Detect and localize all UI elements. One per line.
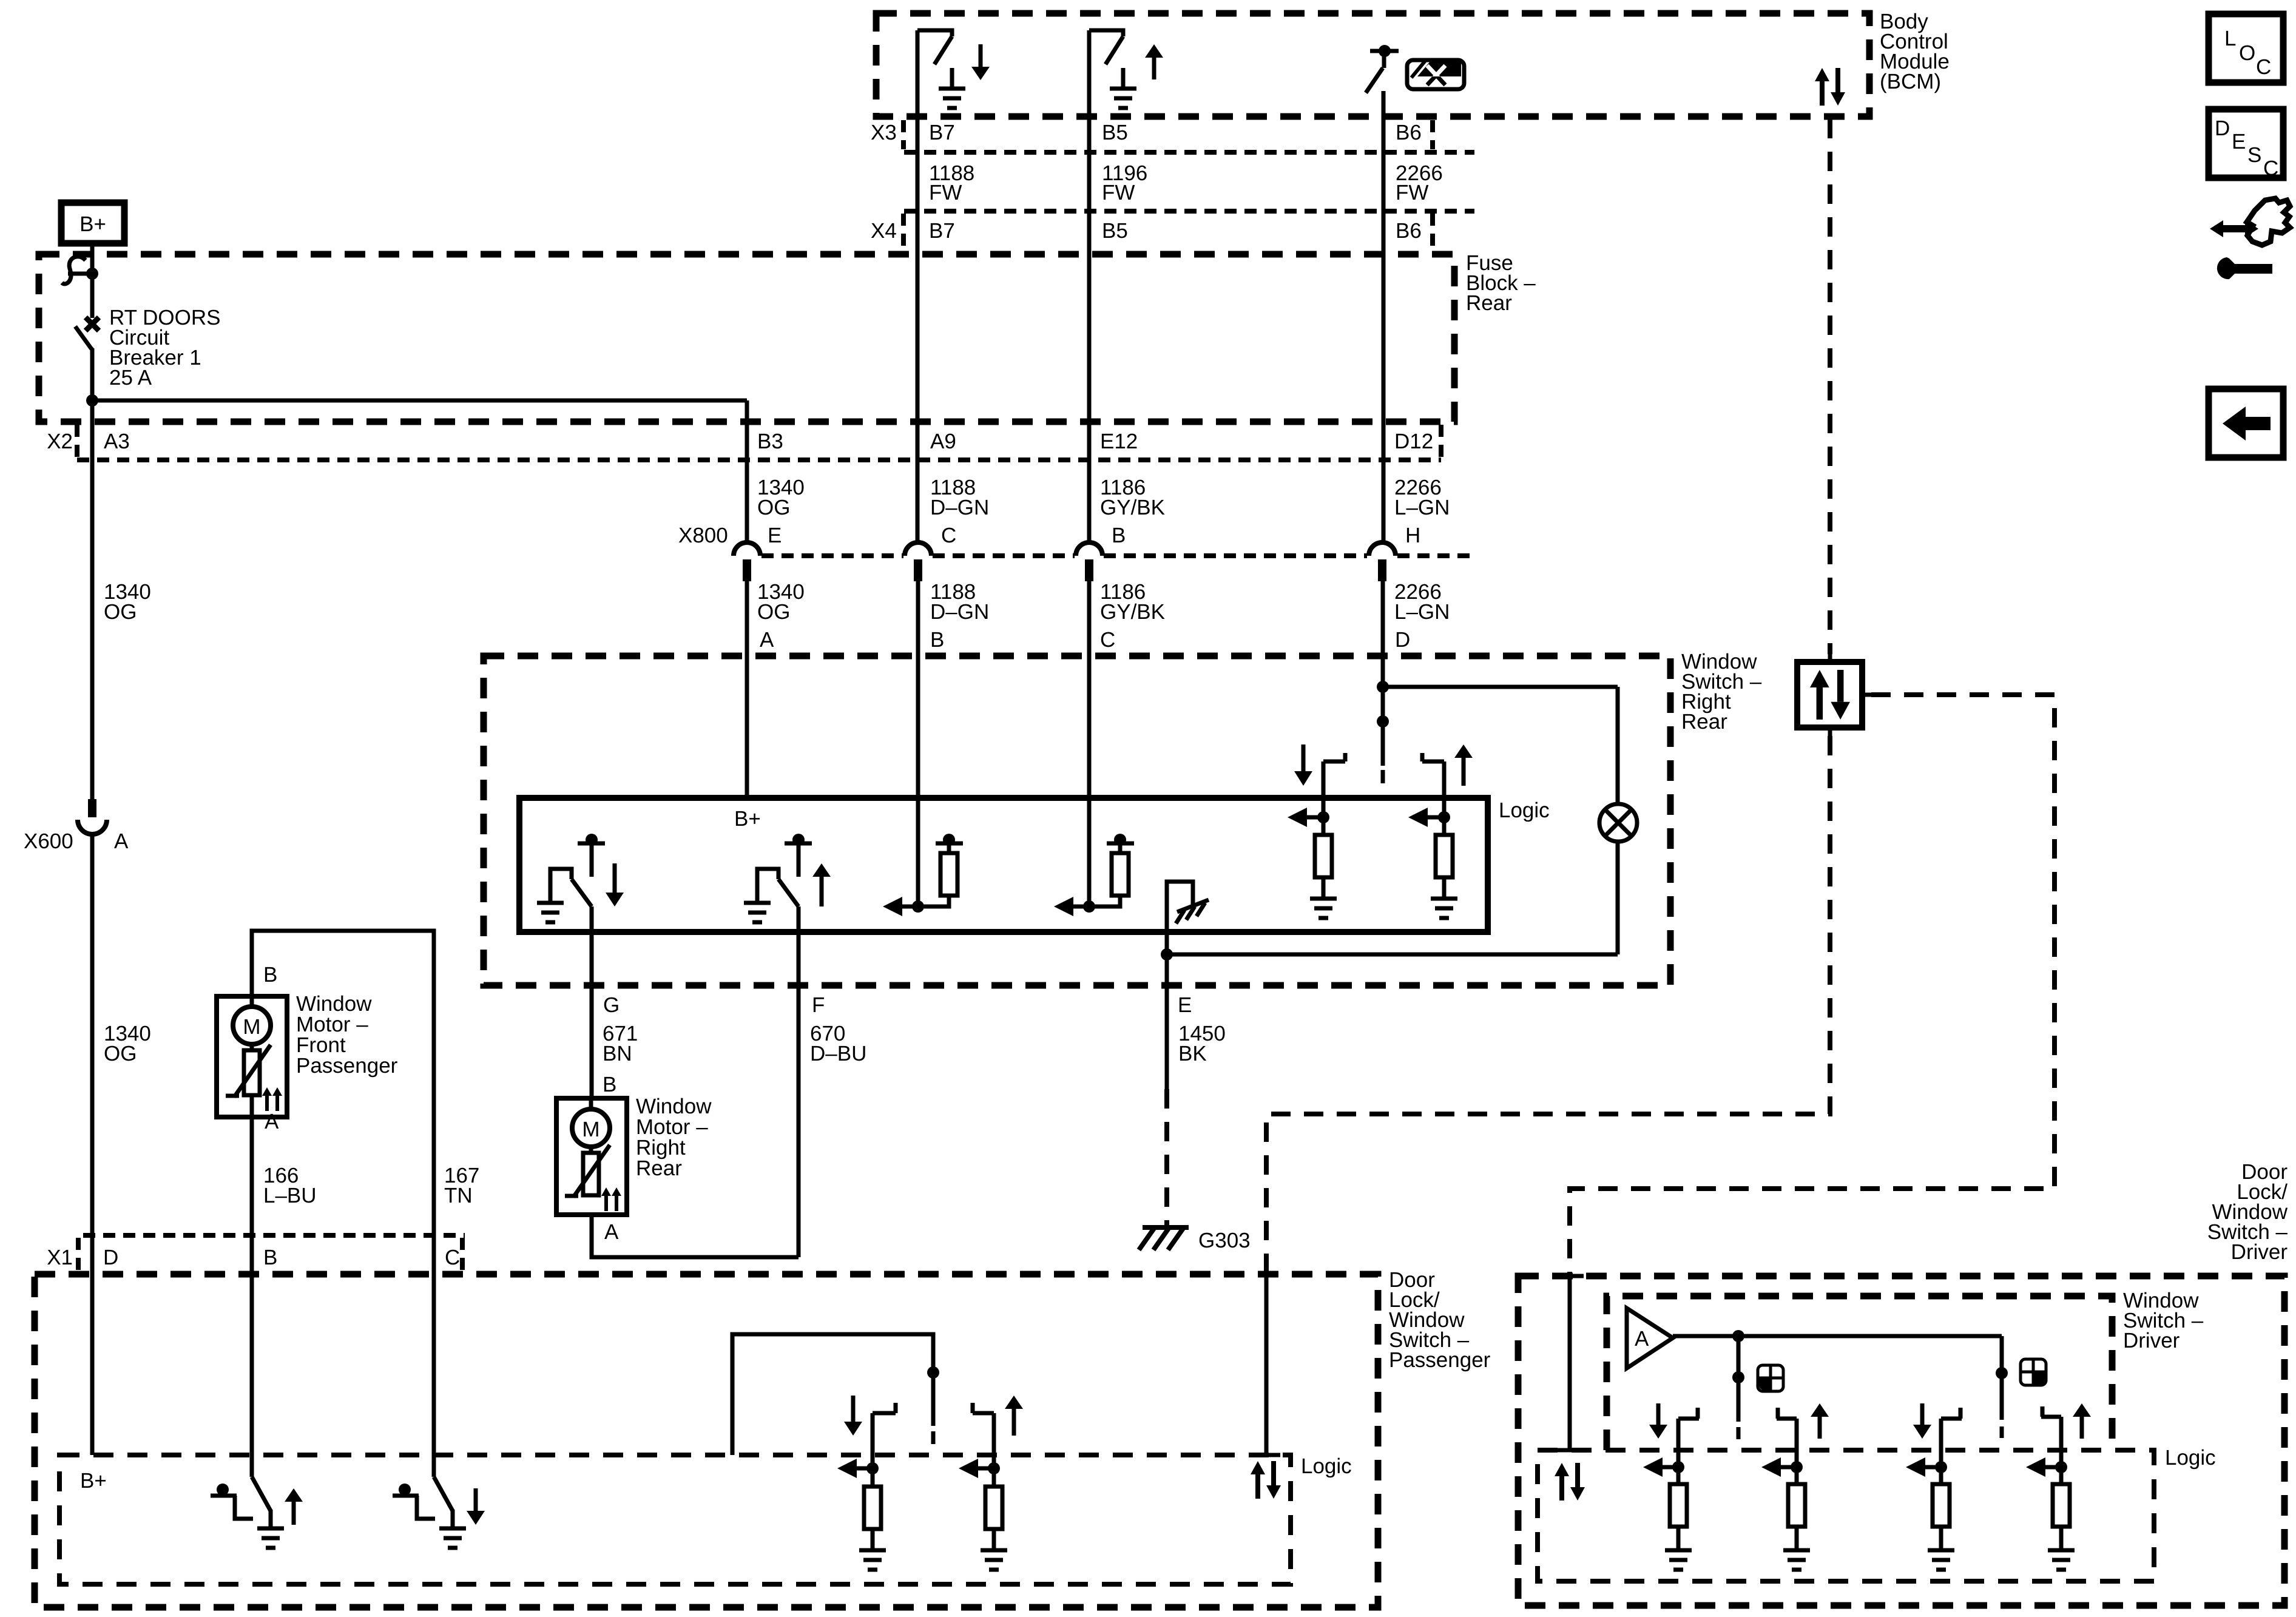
svg-text:B3: B3 (757, 430, 783, 453)
wire D junction and lamp feed (1377, 681, 1389, 693)
window lock icon 1 (1758, 1365, 1783, 1391)
svg-text:X4: X4 (871, 219, 897, 243)
BCM window-up switch (1089, 30, 1123, 87)
svg-text:E: E (768, 524, 782, 547)
DESC box (2209, 109, 2283, 180)
ground (passenger down switch) (439, 1528, 466, 1548)
svg-text:X2: X2 (47, 430, 73, 453)
svg-text:A3: A3 (104, 430, 130, 453)
svg-text:B+: B+ (79, 212, 106, 236)
X3 left tick (901, 120, 906, 149)
svg-text:X1: X1 (47, 1246, 73, 1269)
wire E down (1165, 954, 1169, 1089)
svg-text:A: A (604, 1220, 619, 1244)
svg-text:O: O (2239, 41, 2255, 65)
X800 connector B (1076, 542, 1102, 581)
down arrow (BCM) (971, 44, 990, 80)
svg-text:OG: OG (757, 600, 790, 624)
down switch in logic (550, 834, 605, 906)
LOC box (2209, 14, 2283, 83)
svg-text:E: E (2232, 130, 2246, 154)
svg-text:Rear: Rear (1681, 710, 1727, 734)
dashed WS-RR icon to driver (1570, 695, 2055, 1276)
lamp (circle with X) (1599, 804, 1637, 842)
svg-text:TN: TN (444, 1184, 473, 1207)
wire D lower junction (1377, 715, 1389, 727)
svg-text:OG: OG (104, 1042, 137, 1065)
svg-text:B5: B5 (1102, 121, 1128, 144)
dashed wire to G303 (1164, 1089, 1169, 1227)
up arrow (logic) (812, 863, 831, 906)
svg-text:Logic: Logic (1499, 798, 1550, 822)
svg-text:B6: B6 (1396, 219, 1422, 243)
svg-text:M: M (243, 1015, 260, 1039)
ground (passenger logic right) (981, 1550, 1007, 1570)
fuse block dashed box (39, 254, 1454, 422)
svg-text:L: L (2224, 27, 2236, 50)
wires X1 into passenger box (90, 1235, 95, 1455)
A output line (1673, 1334, 2002, 1338)
svg-text:B6: B6 (1396, 121, 1422, 144)
window lock icon 2 (2021, 1359, 2046, 1385)
svg-text:A: A (760, 628, 774, 652)
svg-text:C: C (445, 1246, 460, 1269)
X2 left tick (75, 425, 79, 457)
passenger logic dashed box (59, 1455, 1291, 1584)
svg-text:A9: A9 (930, 430, 956, 453)
driver logic switch 4 (up) (2026, 1406, 2070, 1549)
Window Motor - Right Rear box (556, 1098, 627, 1215)
passenger down switch (wire C) (393, 1477, 453, 1527)
svg-text:L–GN: L–GN (1394, 600, 1450, 624)
WS-RR dashed box (484, 656, 1670, 985)
up switch in logic (757, 834, 812, 906)
X800 fine line segments (761, 553, 903, 558)
svg-text:FW: FW (929, 181, 962, 204)
wire 1186 GY/BK (1087, 579, 1092, 906)
wire B+ to breaker (90, 243, 95, 318)
svg-text:Passenger: Passenger (296, 1054, 398, 1078)
wire 2266 L-GN (1381, 579, 1385, 766)
thermistor (RR) (565, 1145, 610, 1197)
wire B+ feed down left (90, 400, 95, 800)
svg-text:D12: D12 (1394, 430, 1433, 453)
svg-text:L–BU: L–BU (263, 1184, 317, 1207)
svg-text:B+: B+ (80, 1469, 107, 1493)
lamp return wire (1616, 842, 1620, 954)
thermistor (FP) (226, 1044, 271, 1097)
passenger up switch (wire B) (211, 1477, 271, 1527)
wire 1188 D-GN (916, 579, 920, 906)
svg-text:G: G (603, 993, 620, 1017)
svg-text:BN: BN (603, 1042, 632, 1065)
motor RR top wire stub (589, 1098, 593, 1111)
breaker contact X (86, 317, 99, 331)
passenger dashed box (35, 1274, 1378, 1607)
svg-text:OG: OG (757, 496, 790, 519)
svg-text:Logic: Logic (1301, 1454, 1352, 1478)
svg-text:Driver: Driver (2123, 1329, 2180, 1352)
Window Switch - Driver inner dashed box (1607, 1296, 2112, 1450)
wire motor RR A to F wire (592, 1215, 799, 1257)
passenger logic left switch (837, 1403, 896, 1549)
svg-text:E12: E12 (1100, 430, 1138, 453)
resistor 2 on 1186 wire (1054, 834, 1134, 916)
svg-text:A: A (1635, 1327, 1649, 1351)
svg-text:X3: X3 (871, 121, 897, 144)
X2 fine line (77, 457, 1441, 462)
wire G exits logic (590, 906, 594, 1098)
dashed WS-RR icon to passenger (1266, 736, 1830, 1274)
svg-text:S: S (2247, 143, 2261, 167)
double up arrows (RR) (601, 1187, 621, 1211)
A amplifier triangle (1627, 1308, 1673, 1368)
svg-text:B7: B7 (929, 121, 955, 144)
hand/arrow tool icon (2210, 198, 2290, 279)
wire below X600 (90, 834, 95, 1235)
ground (lock right) (1431, 899, 1457, 918)
X1 left tick (76, 1238, 81, 1271)
motor FP top wire stub (250, 996, 254, 1008)
svg-text:B: B (930, 628, 944, 652)
dashed BCM to WS-RR icon (1828, 119, 1832, 654)
up/down arrows icon (driver) (1555, 1463, 1585, 1501)
up arrow (driver logic 4) (2073, 1403, 2091, 1439)
X600 connector (78, 799, 107, 834)
svg-text:Rear: Rear (1466, 291, 1512, 315)
logic solid box (519, 798, 1488, 932)
chassis ground node E (1167, 882, 1193, 954)
down arrow (lock left) (1294, 744, 1312, 786)
breaker junction (68, 272, 92, 276)
passenger up/down icon feed (1264, 1274, 1269, 1455)
wire col1 down from bus (745, 400, 749, 543)
X800 connector E (734, 542, 760, 581)
svg-text:B+: B+ (734, 807, 761, 831)
svg-text:H: H (1405, 524, 1420, 547)
X1 fine line (83, 1233, 465, 1238)
driver dashed box (1518, 1276, 2284, 1605)
X800 connector C (905, 542, 931, 581)
X4 right tick (1430, 214, 1435, 249)
svg-text:C: C (1100, 628, 1115, 652)
motor FP supply line (252, 931, 434, 1235)
down arrow (passenger logic left) (844, 1396, 862, 1436)
up arrow (passenger logic right) (1005, 1396, 1023, 1436)
driver logic switch 3 (down) (1906, 1408, 1962, 1549)
svg-text:Logic: Logic (2165, 1446, 2216, 1470)
Window Motor - Front Passenger box (217, 996, 287, 1117)
svg-text:B7: B7 (929, 219, 955, 243)
svg-text:GY/BK: GY/BK (1100, 496, 1165, 519)
svg-text:C: C (2263, 157, 2278, 180)
svg-text:A: A (114, 829, 129, 853)
up/down arrows icon (passenger) (1251, 1461, 1281, 1499)
svg-text:E: E (1178, 993, 1192, 1017)
wire 1340 OG col1 (745, 579, 749, 800)
breaker blade (75, 326, 92, 349)
svg-text:(BCM): (BCM) (1880, 70, 1941, 93)
svg-text:M: M (582, 1118, 599, 1141)
svg-text:OG: OG (104, 600, 137, 624)
svg-text:FW: FW (1396, 181, 1428, 204)
ground (logic up switch) (744, 903, 771, 922)
driver logic switch 1 (down) (1643, 1408, 1699, 1549)
wire motor FP to X1 (250, 1095, 254, 1235)
ground (passenger up switch) (257, 1528, 284, 1548)
driver logic dashed box (1538, 1450, 2154, 1581)
lock wiper dash (1381, 770, 1385, 783)
svg-text:FW: FW (1102, 181, 1135, 204)
svg-text:GY/BK: GY/BK (1100, 600, 1165, 624)
svg-text:D–BU: D–BU (810, 1042, 866, 1065)
lock contact right (1408, 753, 1453, 897)
svg-text:A: A (265, 1110, 279, 1133)
svg-text:G303: G303 (1198, 1229, 1251, 1252)
svg-text:L–GN: L–GN (1394, 496, 1450, 519)
X2 right tick (1439, 425, 1443, 457)
passenger logic right switch (959, 1403, 1002, 1549)
svg-text:D–GN: D–GN (930, 600, 989, 624)
driver logic switch 2 (up) (1761, 1408, 1805, 1549)
svg-text:F: F (812, 993, 825, 1017)
svg-text:D: D (1395, 628, 1410, 652)
svg-text:X600: X600 (24, 829, 73, 853)
svg-text:X800: X800 (678, 524, 728, 547)
svg-text:D: D (103, 1246, 118, 1269)
X1 right tick (460, 1238, 465, 1271)
double up arrows (FP) (262, 1087, 282, 1111)
svg-text:C: C (941, 524, 956, 547)
svg-text:Rear: Rear (636, 1156, 682, 1180)
lock wire 2 (driver) (1996, 1336, 2008, 1438)
svg-text:D: D (2215, 116, 2230, 140)
lock wire 1 (driver) (1732, 1330, 1744, 1439)
down arrow (logic) (606, 863, 624, 906)
motor M circle (FP) (233, 1007, 271, 1044)
BCM up/down arrows icon (1815, 68, 1845, 106)
svg-text:B: B (263, 1246, 277, 1269)
down arrow (driver logic 1) (1649, 1403, 1667, 1439)
driver up/down icon feed (1568, 1276, 1572, 1450)
ground (passenger logic left) (859, 1550, 886, 1570)
G303 ground (1139, 1227, 1189, 1250)
B+ supply box (61, 203, 124, 243)
up arrow (BCM) (1145, 44, 1163, 79)
BCM window lock switch (1366, 45, 1399, 93)
breaker output junction (86, 394, 98, 407)
svg-text:BK: BK (1178, 1042, 1207, 1065)
up arrow (passenger) (285, 1488, 303, 1525)
wire breaker to col 1 (92, 399, 747, 403)
ground (BCM up switch) (1110, 89, 1136, 108)
up arrow (driver logic 2) (1811, 1403, 1829, 1439)
svg-text:B: B (603, 1073, 616, 1096)
BCM window-down switch (917, 30, 952, 87)
down arrow (driver logic 3) (1913, 1403, 1931, 1439)
svg-text:Driver: Driver (2231, 1240, 2288, 1264)
X3 row fine line (904, 150, 1474, 155)
X3 right tick (1430, 120, 1435, 149)
WS-RR up/down icon box (1797, 654, 1871, 736)
passenger lock bus (732, 1334, 933, 1455)
svg-text:D–GN: D–GN (930, 496, 989, 519)
window icon (door glass with X) (1407, 60, 1464, 89)
resistor 1 on 1188 wire (883, 834, 963, 916)
Body Control Module dashed box (876, 13, 1869, 116)
svg-text:B: B (1112, 524, 1126, 547)
lock contact left (1288, 753, 1345, 897)
circuit breaker hook (62, 257, 86, 284)
svg-text:B: B (263, 963, 277, 987)
svg-text:B5: B5 (1102, 219, 1128, 243)
X4 row fine line (904, 209, 1474, 214)
X4 left tick (901, 214, 906, 249)
motor M circle (RR) (572, 1109, 610, 1147)
wires from BCM switches down (916, 30, 920, 543)
ground (BCM down switch) (939, 89, 965, 108)
ground (lock left) (1310, 899, 1337, 918)
down arrow (passenger) (467, 1488, 485, 1525)
back arrow box (2209, 389, 2283, 457)
wire F exits logic (797, 906, 801, 1257)
X800 connector H (1369, 542, 1396, 581)
svg-text:Passenger: Passenger (1389, 1348, 1491, 1372)
svg-text:C: C (2256, 55, 2271, 79)
lock wiper dash (passenger) (931, 1431, 936, 1444)
ground (logic down switch) (537, 903, 564, 922)
up arrow (lock right) (1454, 744, 1473, 786)
svg-text:25 A: 25 A (109, 366, 152, 390)
